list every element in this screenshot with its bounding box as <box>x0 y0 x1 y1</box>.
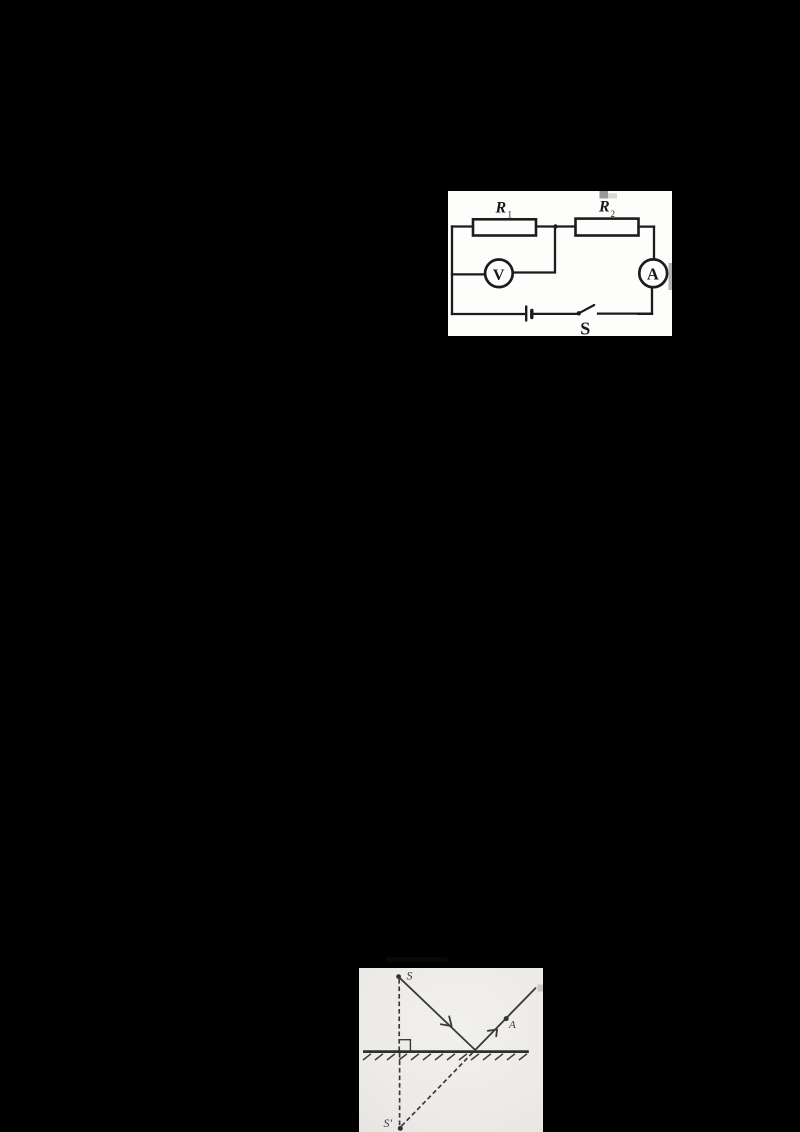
svg-text:R: R <box>495 200 507 217</box>
svg-text:A: A <box>647 265 659 284</box>
svg-text:S: S <box>580 319 590 337</box>
gray scan patch at ray tip <box>538 985 544 992</box>
faint scan remnant above optics figure <box>386 957 447 962</box>
node junction <box>553 224 557 228</box>
reflected ray arrowhead <box>488 1030 497 1037</box>
circuit schematic scan (white panel) <box>448 191 672 336</box>
svg-text:A: A <box>508 1019 516 1031</box>
gray scan patch top <box>600 191 609 199</box>
ammeter U_A circle <box>639 259 667 287</box>
wire ammeter bottom to bottom rail <box>638 288 652 314</box>
right-angle mark <box>399 1040 410 1051</box>
mirror hatching <box>363 1054 527 1060</box>
wire node down to voltmeter branch <box>515 227 555 273</box>
wire node to R2 <box>556 225 576 227</box>
wire right vertical to ammeter <box>653 227 655 259</box>
image point S' dot <box>398 1126 403 1131</box>
battery short thick plate <box>530 311 533 318</box>
incident ray arrowhead <box>441 1016 452 1026</box>
wire left vertical <box>451 227 453 315</box>
reflected ray mirror point to top right <box>475 988 536 1050</box>
normal dashed line S to mirror <box>398 979 400 1051</box>
resistor R2 <box>576 219 639 236</box>
switch S pivot dot <box>577 311 581 315</box>
svg-text:2: 2 <box>611 209 616 219</box>
svg-text:1: 1 <box>508 210 513 220</box>
point A dot <box>504 1016 509 1021</box>
gray scan patch top lighter <box>608 193 617 198</box>
incident ray S to mirror point <box>400 978 475 1050</box>
wire R2 to right vertical <box>639 225 655 227</box>
svg-text:S: S <box>407 969 413 983</box>
wire bottom rail left segment <box>452 313 525 315</box>
svg-text:R: R <box>598 199 610 216</box>
svg-text:V: V <box>493 267 505 284</box>
mirror surface line <box>363 1050 529 1053</box>
wire left vertical to voltmeter <box>452 273 484 275</box>
normal dashed line below mirror to S' <box>399 1053 401 1126</box>
voltmeter U_V circle <box>485 260 513 288</box>
wire R1 to node <box>536 225 556 227</box>
virtual ray dashed S' to mirror point <box>402 1050 476 1126</box>
source point S dot <box>396 974 401 979</box>
wire switch to right <box>598 312 652 314</box>
wire battery to switch <box>533 313 579 315</box>
switch S blade <box>579 305 594 313</box>
gray scan patch right edge <box>669 263 673 290</box>
svg-text:S′: S′ <box>384 1116 393 1130</box>
resistor R1 <box>473 219 536 235</box>
optics reflection diagram scan (light panel) <box>359 968 543 1132</box>
wire top-left to R1 <box>452 225 473 227</box>
battery long plate <box>525 307 527 321</box>
